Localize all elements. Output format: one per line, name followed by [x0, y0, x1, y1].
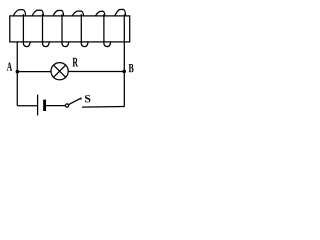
label S: [85, 95, 90, 102]
battery short thick plate: [43, 100, 46, 111]
solenoid core rectangle: [10, 16, 130, 42]
lamp R circle: [51, 63, 68, 80]
coil turn 4 hump: [72, 11, 83, 16]
coil turn 2 hump: [32, 10, 43, 16]
node A junction dot: [16, 70, 20, 74]
bottom wire left segment: [17, 105, 37, 107]
lamp X stroke 1: [54, 65, 66, 77]
middle wire A to lamp: [17, 71, 51, 73]
coil turn 4 front stroke + bottom loop: [81, 14, 88, 46]
coil turn 6 hump: [115, 9, 126, 16]
bottom wire right segment: [82, 106, 124, 109]
wire battery to switch: [46, 105, 65, 107]
battery long plate: [37, 95, 39, 116]
middle wire lamp to B: [68, 71, 124, 73]
coil turn 3 hump: [53, 10, 64, 16]
coil turn 6 front stroke = right lead down to bottom wire: [123, 14, 125, 107]
label A: [7, 62, 12, 70]
label B: [129, 64, 134, 72]
coil turn 5 front stroke + bottom loop: [104, 14, 111, 46]
coil turn 1 hump: [13, 10, 26, 16]
switch lever: [69, 98, 82, 105]
switch pivot circle: [65, 104, 68, 107]
left coil lead wire down: [16, 42, 18, 106]
coil turn 2 front stroke + bottom loop: [43, 14, 50, 46]
label R: [73, 58, 79, 67]
node B junction dot: [122, 70, 126, 74]
lamp X stroke 2: [54, 65, 66, 77]
coil turn 5 hump: [96, 11, 105, 16]
coil turn 3 front stroke + bottom loop: [62, 14, 69, 46]
coil turn 1 front stroke + bottom loop: [23, 14, 30, 46]
